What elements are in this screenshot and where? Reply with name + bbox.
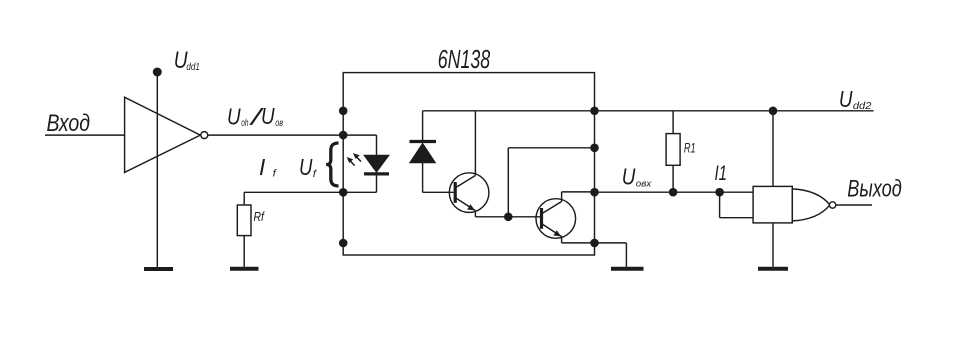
label I_f bbox=[259, 154, 277, 180]
svg-text:dd1: dd1 bbox=[186, 62, 200, 73]
wire Q1 emitter to Q2 base bbox=[474, 211, 476, 217]
svg-text:U: U bbox=[622, 163, 636, 189]
svg-text:oh: oh bbox=[241, 118, 248, 129]
svg-text:U: U bbox=[839, 86, 853, 112]
wire base node to package right edge bbox=[507, 148, 509, 217]
wire power vertical through inverter bbox=[156, 72, 158, 267]
wire gate power vertical bbox=[772, 111, 774, 267]
wire Q1 collector to rail bbox=[474, 111, 476, 176]
wire Q2 collector to edge bbox=[561, 192, 563, 202]
wire U_овх net bbox=[595, 191, 754, 193]
transistor Q2 bbox=[536, 199, 576, 239]
svg-text:Rf: Rf bbox=[254, 209, 266, 224]
optocoupler U2 6N138 package outline bbox=[343, 73, 594, 255]
svg-text:U: U bbox=[261, 103, 275, 129]
svg-text:овх: овх bbox=[636, 178, 652, 188]
power U_dd1 bbox=[153, 47, 200, 76]
emission arrows bbox=[347, 153, 361, 166]
svg-text:6N138: 6N138 bbox=[438, 44, 491, 74]
svg-text:R1: R1 bbox=[684, 140, 696, 156]
wire emitter to ground bbox=[595, 242, 627, 244]
wire input bbox=[45, 134, 125, 136]
svg-text:I1: I1 bbox=[715, 162, 728, 185]
node Q2 base junction bbox=[504, 213, 513, 222]
node U_овх bbox=[622, 163, 652, 189]
photodiode D2 bbox=[422, 111, 424, 142]
inverter U1 bbox=[125, 97, 201, 172]
ground bbox=[611, 267, 644, 271]
svg-text:Вход: Вход bbox=[47, 110, 91, 137]
svg-text:Выход: Выход bbox=[847, 175, 902, 202]
svg-text:I: I bbox=[259, 154, 266, 180]
gate I1 bbox=[753, 186, 836, 223]
ground bbox=[230, 267, 259, 271]
node dots on U_овх net bbox=[669, 188, 678, 197]
node U_oh/U_ов bbox=[227, 103, 283, 130]
transistor Q1 bbox=[449, 173, 489, 213]
pin dots on package bbox=[339, 107, 599, 248]
ground bbox=[758, 267, 788, 271]
svg-text:ов: ов bbox=[275, 118, 283, 129]
wire gate output bbox=[836, 204, 872, 206]
rail U_dd2 bbox=[423, 110, 874, 112]
wire Rf to optocoupler bbox=[244, 191, 343, 193]
wire Q2 emitter to edge bbox=[561, 237, 563, 243]
svg-text:U: U bbox=[299, 154, 313, 180]
svg-text:dd2: dd2 bbox=[853, 101, 872, 112]
wire gate input jog bbox=[719, 192, 721, 218]
ground bbox=[144, 267, 173, 271]
LED D1 bbox=[343, 134, 376, 136]
label U_f bbox=[299, 154, 317, 180]
node U_dd2 bbox=[839, 86, 872, 112]
svg-text:U: U bbox=[227, 103, 241, 129]
resistor Rf bbox=[243, 192, 245, 205]
brace U_f bbox=[326, 143, 338, 186]
resistor R1 bbox=[672, 111, 674, 134]
wire inverter output to optocoupler bbox=[208, 134, 343, 136]
